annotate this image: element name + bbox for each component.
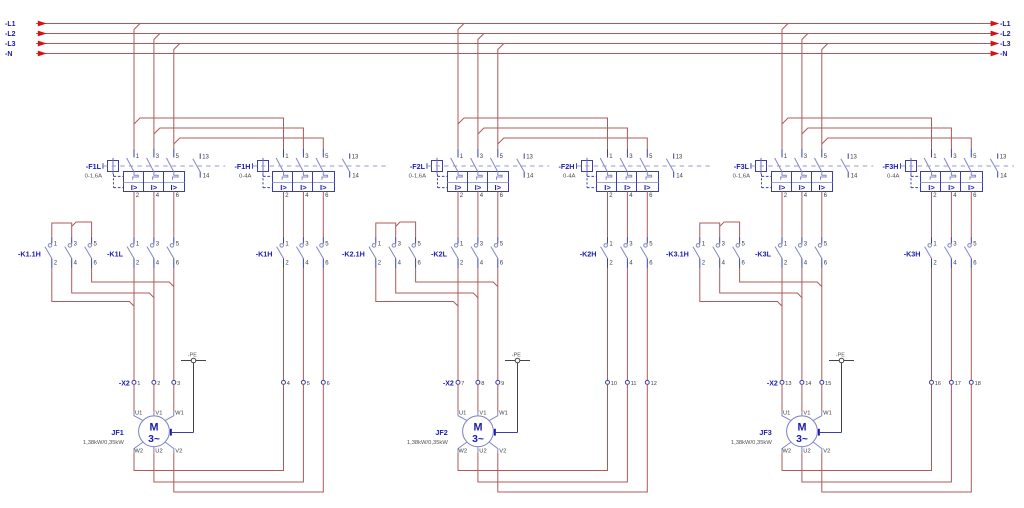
svg-text:I>: I> [300,183,307,192]
terminal -X2:5 [301,380,305,384]
wire -X2:3 to motor JF1 W1 [173,384,175,411]
svg-text:U2: U2 [803,448,810,454]
svg-text:-L2: -L2 [5,31,16,38]
contactor -K1L pole 5-6 contact [173,237,175,244]
svg-text:-K3.1H: -K3.1H [666,250,689,259]
svg-text:I>: I> [948,183,955,192]
wire -K1.1H:6 to node U1 phase 3 [92,268,174,287]
wire -K3L:2 to -X2:13 [781,268,783,380]
contactor -K3L pole 1-2 contact [781,237,783,244]
wire motor JF2 W2 to -X2:10 [458,384,608,470]
terminal -X2:7 [456,380,460,384]
svg-text:-K2L: -K2L [431,250,448,259]
svg-text:0-1,6A: 0-1,6A [409,174,426,180]
svg-text:2: 2 [157,381,160,387]
contactor -K1.1H pole 5-6 contact [91,237,93,244]
wire motor JF1 W2 to -X2:4 [134,384,284,470]
svg-text:14: 14 [352,173,359,179]
motor JF2 terminal U1 [458,412,467,421]
svg-text:4: 4 [287,381,290,387]
svg-text:I>: I> [320,183,327,192]
wire -K1H:2 to -X2:4 [283,268,285,380]
motor JF3 terminal W1 [813,412,822,421]
wire -K2L:4 to -X2:8 [477,268,479,380]
wire -F3H:4 to -K3H:3 [950,191,952,237]
contactor -K3.1H pole 5-6 contact [739,237,741,244]
terminal -X2:2 [152,380,156,384]
breaker -F3H pole 5-6 contact [970,149,972,158]
bus arrow right -L1 [991,21,1000,27]
svg-text:5: 5 [307,381,310,387]
svg-text:I>: I> [171,183,178,192]
breaker -F1L thermal element pole 5 [173,172,179,180]
contactor -K1L pole 1-2 contact [133,237,135,244]
svg-text:0-4A: 0-4A [563,174,576,180]
motor JF1 terminal W1 [165,412,174,421]
breaker -F1L auxiliary contact 13-14 [199,153,201,158]
svg-text:M: M [798,421,807,433]
svg-text:-K3H: -K3H [904,250,921,259]
wire motor JF1 U2 to -X2:5 [154,384,304,482]
svg-text:6: 6 [327,381,330,387]
breaker -F1L thermal element pole 1 [133,172,139,180]
dashed mechanical linkage line -F1L [103,165,225,167]
motor JF3 terminal W2 [782,442,791,453]
wire branch L1 to -F3H pole 1 [782,118,932,149]
motor JF3 terminal U1 [782,412,791,421]
wire branch L3 to -F2H pole 5 [498,138,648,149]
svg-text:I>: I> [151,183,158,192]
wire branch L3 to -F3H pole 5 [822,138,972,149]
terminal -X2:10 [606,380,610,384]
svg-text:-F2H: -F2H [559,162,575,171]
contactor -K2.1H pole 5-6 contact [415,237,417,244]
svg-text:16: 16 [935,381,941,387]
svg-text:14: 14 [203,173,210,179]
svg-text:-X2: -X2 [767,380,778,387]
terminal -X2:16 [930,380,934,384]
wire motor JF3 U2 to -X2:17 [802,384,952,482]
wire -F2H:6 to -K2H:5 [646,191,648,237]
wire L2 drop to -F3L pole 3 (node tap x=801.9) [802,34,808,149]
svg-text:-K2.1H: -K2.1H [342,250,365,259]
wire motor JF3 V2 to -X2:18 [822,384,972,492]
svg-text:I>: I> [644,183,651,192]
wire star bridge of -K3.1H pole 5 tap [720,222,740,237]
motor JF1 PE stud [170,429,172,436]
breaker -F3L thermal element pole 3 [801,172,807,180]
wire PE to motor JF2 [517,363,519,433]
svg-text:U2: U2 [479,448,486,454]
breaker -F2H mechanism linkage [586,174,588,187]
motor JF1 terminal W2 [134,442,143,453]
svg-text:-F3L: -F3L [734,162,750,171]
wire -K1L:4 to -X2:2 [153,268,155,380]
wire -K3.1H:4 to node U3 phase 2 [720,268,802,298]
svg-text:I>: I> [799,183,806,192]
breaker -F2L pole 5-6 contact [497,149,499,158]
wire -F3H:2 to -K3H:1 [931,191,933,237]
svg-text:-K2H: -K2H [580,250,597,259]
wire L3 drop to -F3L pole 5 (node tap x=821.8) [822,44,828,149]
terminal -X2:3 [172,380,176,384]
svg-text:13: 13 [1000,155,1007,161]
wire L1 drop to -F1L pole 1 (node tap x=134) [134,24,140,149]
breaker -F1L pole 5-6 contact [173,149,175,158]
wire -K2L:2 to -X2:7 [457,268,459,380]
svg-text:1,38kW/0,35kW: 1,38kW/0,35kW [407,440,448,446]
svg-text:V2: V2 [499,448,506,454]
svg-text:-K3L: -K3L [755,250,772,259]
svg-text:13: 13 [352,155,359,161]
wire motor JF3 W2 to -X2:16 [782,384,932,470]
wire branch L2 to -F1H pole 3 [154,128,304,149]
wire -F3L:4 to -K3L:3 [801,191,803,237]
wire -K1.1H:2 to node U1 phase 1 [52,268,134,306]
motor JF1 M 3~ circle [139,416,170,447]
svg-text:-F1H: -F1H [235,162,251,171]
contactor -K1.1H pole 3-4 contact [71,237,73,244]
breaker -F2H pole 5-6 contact [646,149,648,158]
svg-text:14: 14 [676,173,683,179]
wire -K3.1H:2 to node U3 phase 1 [700,268,782,306]
motor JF3 terminal U2 [801,447,803,453]
svg-text:-X2: -X2 [443,380,454,387]
wire -K2.1H:6 to node U2 phase 3 [416,268,498,287]
PE earth terminal group 3 [829,360,854,362]
svg-text:18: 18 [975,381,981,387]
svg-text:14: 14 [527,173,534,179]
breaker -F2L thermal element pole 5 [497,172,503,180]
svg-text:W2: W2 [134,448,143,454]
svg-text:U2: U2 [155,448,162,454]
PE earth terminal group 1 [181,360,206,362]
wire L2 drop to -F2L pole 3 (node tap x=477.9) [478,34,484,149]
wire PE to motor JF3 [841,363,843,433]
dashed mechanical linkage line -F1H [253,165,386,167]
svg-text:JF2: JF2 [435,428,447,437]
svg-text:13: 13 [526,155,533,161]
wire L3 drop to -F2L pole 5 (node tap x=497.8) [498,44,504,149]
svg-text:0-1,6A: 0-1,6A [85,174,102,180]
breaker -F2L handle tick [426,163,428,169]
motor JF1 terminal U1 [134,412,143,421]
dashed mechanical linkage line -F3H [901,165,1015,167]
breaker -F1L handle tick [102,163,104,169]
wire -F2H:4 to -K2H:3 [626,191,628,237]
breaker -F2H thermal element pole 1 [606,172,612,180]
breaker -F2L mechanism linkage [437,174,439,187]
contactor -K3L pole 5-6 contact [821,237,823,244]
breaker -F2L pole 1-2 contact [457,149,459,158]
breaker -F3L thermal element pole 5 [821,172,827,180]
svg-text:14: 14 [805,381,811,387]
bus line -L2 [36,33,991,35]
wire -K3.1H:6 to node U3 phase 3 [740,268,822,287]
wire -F1H:2 to -K1H:1 [283,191,285,237]
breaker -F1L pole 1-2 contact [133,149,135,158]
wire -K3L:6 to -X2:15 [821,268,823,380]
breaker -F3L pole 1-2 contact [781,149,783,158]
wire -K2L:6 to -X2:9 [497,268,499,380]
svg-text:3: 3 [177,381,180,387]
svg-text:12: 12 [651,381,657,387]
bus source arrow left -N [38,51,47,57]
svg-text:U1: U1 [135,410,142,416]
wire -X2:9 to motor JF2 W1 [497,384,499,411]
bus arrow right -L2 [991,31,1000,37]
breaker -F3H auxiliary contact 13-14 [997,153,999,158]
bus source arrow left -L3 [38,41,47,47]
svg-text:I>: I> [928,183,935,192]
wire -X2:14 to motor JF3 V1 [801,384,803,411]
svg-text:-PE: -PE [512,352,521,358]
wire L3 drop to -F1L pole 5 (node tap x=173.8) [174,44,180,149]
breaker -F1L mechanism linkage [113,174,115,187]
svg-text:JF3: JF3 [759,428,771,437]
wire -K2H:4 to -X2:11 [626,268,628,380]
breaker -F1H overload box [273,172,335,192]
svg-text:W1: W1 [499,410,508,416]
svg-text:1: 1 [137,381,140,387]
contactor -K2L pole 1-2 contact [457,237,459,244]
wire -F1L:4 to -K1L:3 [153,191,155,237]
svg-text:-F3H: -F3H [883,162,899,171]
svg-text:-PE: -PE [188,352,197,358]
breaker -F2H thermal element pole 5 [646,172,652,180]
svg-text:15: 15 [825,381,831,387]
svg-text:M: M [150,421,159,433]
wire -K1L:2 to -X2:1 [133,268,135,380]
svg-text:-PE: -PE [836,352,845,358]
terminal -X2:15 [820,380,824,384]
bus line -L3 [36,43,991,45]
wire -K2.1H:2 to node U2 phase 1 [376,268,458,306]
contactor -K2H pole 3-4 contact [626,237,628,244]
circuit breaker -F2L handle box [432,161,443,172]
wire -F1H:4 to -K1H:3 [302,191,304,237]
bus source arrow left -L1 [38,21,47,27]
breaker -F1H thermal element pole 3 [302,172,308,180]
wire star bridge of -K2.1H pole 5 tap [396,222,416,237]
svg-text:14: 14 [1000,173,1007,179]
svg-text:I>: I> [779,183,786,192]
motor JF2 terminal V1 [477,412,479,416]
breaker -F2L thermal element pole 1 [457,172,463,180]
svg-text:-K1L: -K1L [107,250,124,259]
breaker -F1H pole 1-2 contact [283,149,285,158]
wire -X2:8 to motor JF2 V1 [477,384,479,411]
terminal -X2:6 [321,380,325,384]
breaker -F3H overload box [921,172,983,192]
svg-text:I>: I> [624,183,631,192]
svg-text:0-1,6A: 0-1,6A [733,174,750,180]
wire -F2L:6 to -K2L:5 [497,191,499,237]
contactor -K2H pole 1-2 contact [607,237,609,244]
svg-text:8: 8 [481,381,484,387]
contactor -K3H pole 5-6 contact [970,237,972,244]
circuit breaker -F1H handle box [258,161,269,172]
breaker -F2H pole 3-4 contact [626,149,628,158]
breaker -F2L thermal element pole 3 [477,172,483,180]
wire -X2:2 to motor JF1 V1 [153,384,155,411]
svg-text:-F2L: -F2L [410,162,426,171]
contactor -K1L pole 3-4 contact [153,237,155,244]
motor JF3 terminal V1 [801,412,803,416]
wire -F3L:2 to -K3L:1 [781,191,783,237]
wire star bridge of -K1.1H pole 5 tap [72,222,92,237]
breaker -F3L mechanism linkage [761,174,763,187]
terminal -X2:8 [476,380,480,384]
wire -K3L:4 to -X2:14 [801,268,803,380]
wire -F2H:2 to -K2H:1 [607,191,609,237]
breaker -F2L pole 3-4 contact [477,149,479,158]
breaker -F1H pole 3-4 contact [302,149,304,158]
svg-text:V1: V1 [479,410,486,416]
motor JF1 terminal V1 [153,412,155,416]
wire -F1H:6 to -K1H:5 [322,191,324,237]
breaker -F3L pole 5-6 contact [821,149,823,158]
svg-text:7: 7 [461,381,464,387]
svg-text:I>: I> [968,183,975,192]
wire -X2:13 to motor JF3 U1 [781,384,783,411]
motor JF1 terminal U2 [153,447,155,453]
svg-text:U1: U1 [459,410,466,416]
wire L1 drop to -F3L pole 1 (node tap x=782) [782,24,788,149]
breaker -F2H overload box [597,172,659,192]
svg-text:0-4A: 0-4A [239,174,252,180]
breaker -F3H thermal element pole 3 [950,172,956,180]
breaker -F3L handle tick [750,163,752,169]
svg-text:-X2: -X2 [119,380,130,387]
breaker -F3H thermal element pole 1 [930,172,936,180]
wire -X2:7 to motor JF2 U1 [457,384,459,411]
svg-text:17: 17 [955,381,961,387]
contactor -K1H pole 1-2 contact [283,237,285,244]
contactor -K1H pole 3-4 contact [302,237,304,244]
bus arrow right -N [991,51,1000,57]
svg-text:W2: W2 [458,448,467,454]
svg-text:-L3: -L3 [5,41,16,48]
breaker -F1H thermal element pole 1 [282,172,288,180]
svg-text:13: 13 [676,155,683,161]
wire -K2H:6 to -X2:12 [646,268,648,380]
breaker -F3L pole 3-4 contact [801,149,803,158]
motor JF2 terminal W2 [458,442,467,453]
motor JF2 terminal U2 [477,447,479,453]
breaker -F2H auxiliary contact 13-14 [673,153,675,158]
breaker -F3H pole 1-2 contact [931,149,933,158]
breaker -F2H handle tick [576,163,578,169]
terminal -X2:9 [496,380,500,384]
motor JF2 PE stud [494,429,496,436]
svg-text:M: M [474,421,483,433]
contactor -K1H pole 5-6 contact [322,237,324,244]
svg-text:V2: V2 [823,448,830,454]
svg-text:1,38kW/0,35kW: 1,38kW/0,35kW [83,440,124,446]
svg-text:0-4A: 0-4A [887,174,900,180]
breaker -F1H pole 5-6 contact [322,149,324,158]
svg-text:-K1.1H: -K1.1H [18,250,41,259]
svg-text:13: 13 [850,155,857,161]
terminal -X2:4 [282,380,286,384]
svg-text:U1: U1 [783,410,790,416]
wire -X2:15 to motor JF3 W1 [821,384,823,411]
breaker -F3H pole 3-4 contact [950,149,952,158]
svg-text:1,38kW/0,35kW: 1,38kW/0,35kW [731,440,772,446]
svg-text:-N: -N [1000,51,1007,58]
svg-text:-L2: -L2 [1000,31,1011,38]
motor JF2 terminal V2 [489,442,498,453]
contactor -K3L pole 3-4 contact [801,237,803,244]
svg-text:I>: I> [819,183,826,192]
terminal -X2:12 [645,380,649,384]
breaker -F1L overload box [124,172,185,192]
svg-text:-K1H: -K1H [256,250,273,259]
svg-text:3~: 3~ [148,434,160,445]
breaker -F1L pole 3-4 contact [153,149,155,158]
breaker -F2L auxiliary contact 13-14 [523,153,525,158]
breaker -F3H mechanism linkage [910,174,912,187]
svg-text:13: 13 [785,381,791,387]
svg-text:-F1L: -F1L [86,162,102,171]
breaker -F2L overload box [448,172,509,192]
breaker -F1H auxiliary contact 13-14 [349,153,351,158]
svg-text:I>: I> [604,183,611,192]
svg-text:I>: I> [280,183,287,192]
svg-text:I>: I> [475,183,482,192]
motor JF2 terminal W1 [489,412,498,421]
breaker -F1H mechanism linkage [262,174,264,187]
svg-text:13: 13 [202,155,209,161]
wire -F3H:6 to -K3H:5 [970,191,972,237]
wire -K1H:6 to -X2:6 [322,268,324,380]
svg-text:V1: V1 [155,410,162,416]
contactor -K3H pole 3-4 contact [950,237,952,244]
svg-text:JF1: JF1 [111,428,123,437]
terminal -X2:14 [800,380,804,384]
wire star bridge of -K2.1H poles 1-3 [376,223,396,237]
breaker -F1H handle tick [252,163,254,169]
bus source arrow left -L2 [38,31,47,37]
breaker -F2H pole 1-2 contact [607,149,609,158]
wire -X2:1 to motor JF1 U1 [133,384,135,411]
wire -K3H:4 to -X2:17 [950,268,952,380]
svg-text:I>: I> [495,183,502,192]
contactor -K2L pole 5-6 contact [497,237,499,244]
motor JF3 PE stud [818,429,820,436]
bus arrow right -L3 [991,41,1000,47]
wire -K2.1H:4 to node U2 phase 2 [396,268,478,298]
circuit breaker -F2H handle box [582,161,593,172]
dashed mechanical linkage line -F3L [751,165,873,167]
svg-text:W1: W1 [175,410,184,416]
circuit breaker -F1L handle box [108,161,119,172]
svg-text:10: 10 [611,381,617,387]
breaker -F3L auxiliary contact 13-14 [847,153,849,158]
svg-text:3~: 3~ [796,434,808,445]
wire L1 drop to -F2L pole 1 (node tap x=458) [458,24,464,149]
breaker -F3H handle tick [900,163,902,169]
svg-text:-L3: -L3 [1000,41,1011,48]
wire branch L2 to -F3H pole 3 [802,128,952,149]
contactor -K2L pole 3-4 contact [477,237,479,244]
motor JF1 terminal V2 [165,442,174,453]
svg-text:11: 11 [631,381,637,387]
breaker -F3L thermal element pole 1 [781,172,787,180]
dashed mechanical linkage line -F2H [577,165,710,167]
contactor -K2H pole 5-6 contact [646,237,648,244]
